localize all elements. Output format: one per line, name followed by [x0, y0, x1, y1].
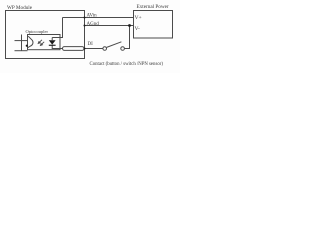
svg-text:DI: DI [88, 42, 94, 47]
terminal dot DI [84, 48, 86, 50]
wire LED cathode to resistor [52, 45, 62, 49]
LED D1 cathode bar [49, 45, 56, 46]
terminal dot AGnd [84, 25, 86, 27]
contact switch lever [107, 42, 122, 48]
svg-text:WP Module: WP Module [7, 5, 33, 11]
optocoupler box [28, 35, 61, 50]
phototransistor side wire vertical [21, 35, 23, 51]
terminal dot AVin [84, 17, 86, 19]
phototransistor emitter dot [26, 45, 28, 47]
External Power box [134, 11, 173, 39]
svg-text:External Power: External Power [137, 4, 169, 10]
LED D1 anode lead [51, 38, 53, 41]
wire resistor to DI terminal [84, 48, 85, 50]
phototransistor Q1 body [28, 36, 33, 48]
phototransistor emitter stub [15, 50, 28, 52]
wire AVin [63, 17, 134, 19]
svg-text:V+: V+ [135, 15, 142, 21]
contact switch left pole [103, 47, 107, 51]
wire LED anode riser [52, 18, 62, 38]
svg-text:V-: V- [135, 26, 141, 32]
junction dot AGnd/V- [128, 24, 131, 27]
svg-text:Optocoupler: Optocoupler [26, 29, 49, 34]
wire DI to contact [85, 48, 103, 50]
contact switch right pole [121, 47, 125, 51]
svg-text:AGnd: AGnd [87, 22, 100, 27]
LED D1 triangle [49, 40, 56, 44]
resistor R1 [63, 47, 85, 51]
wire V- drop to contact [124, 26, 129, 49]
phototransistor collector stub [15, 40, 29, 42]
wire AGnd [85, 25, 134, 27]
light arrow 2 [41, 42, 44, 45]
svg-text:Contact (button / switch /NPN: Contact (button / switch /NPN sensor) [90, 62, 164, 67]
WP Module box [6, 11, 85, 59]
light arrow 1 [39, 40, 42, 43]
svg-text:AVin: AVin [87, 13, 98, 18]
